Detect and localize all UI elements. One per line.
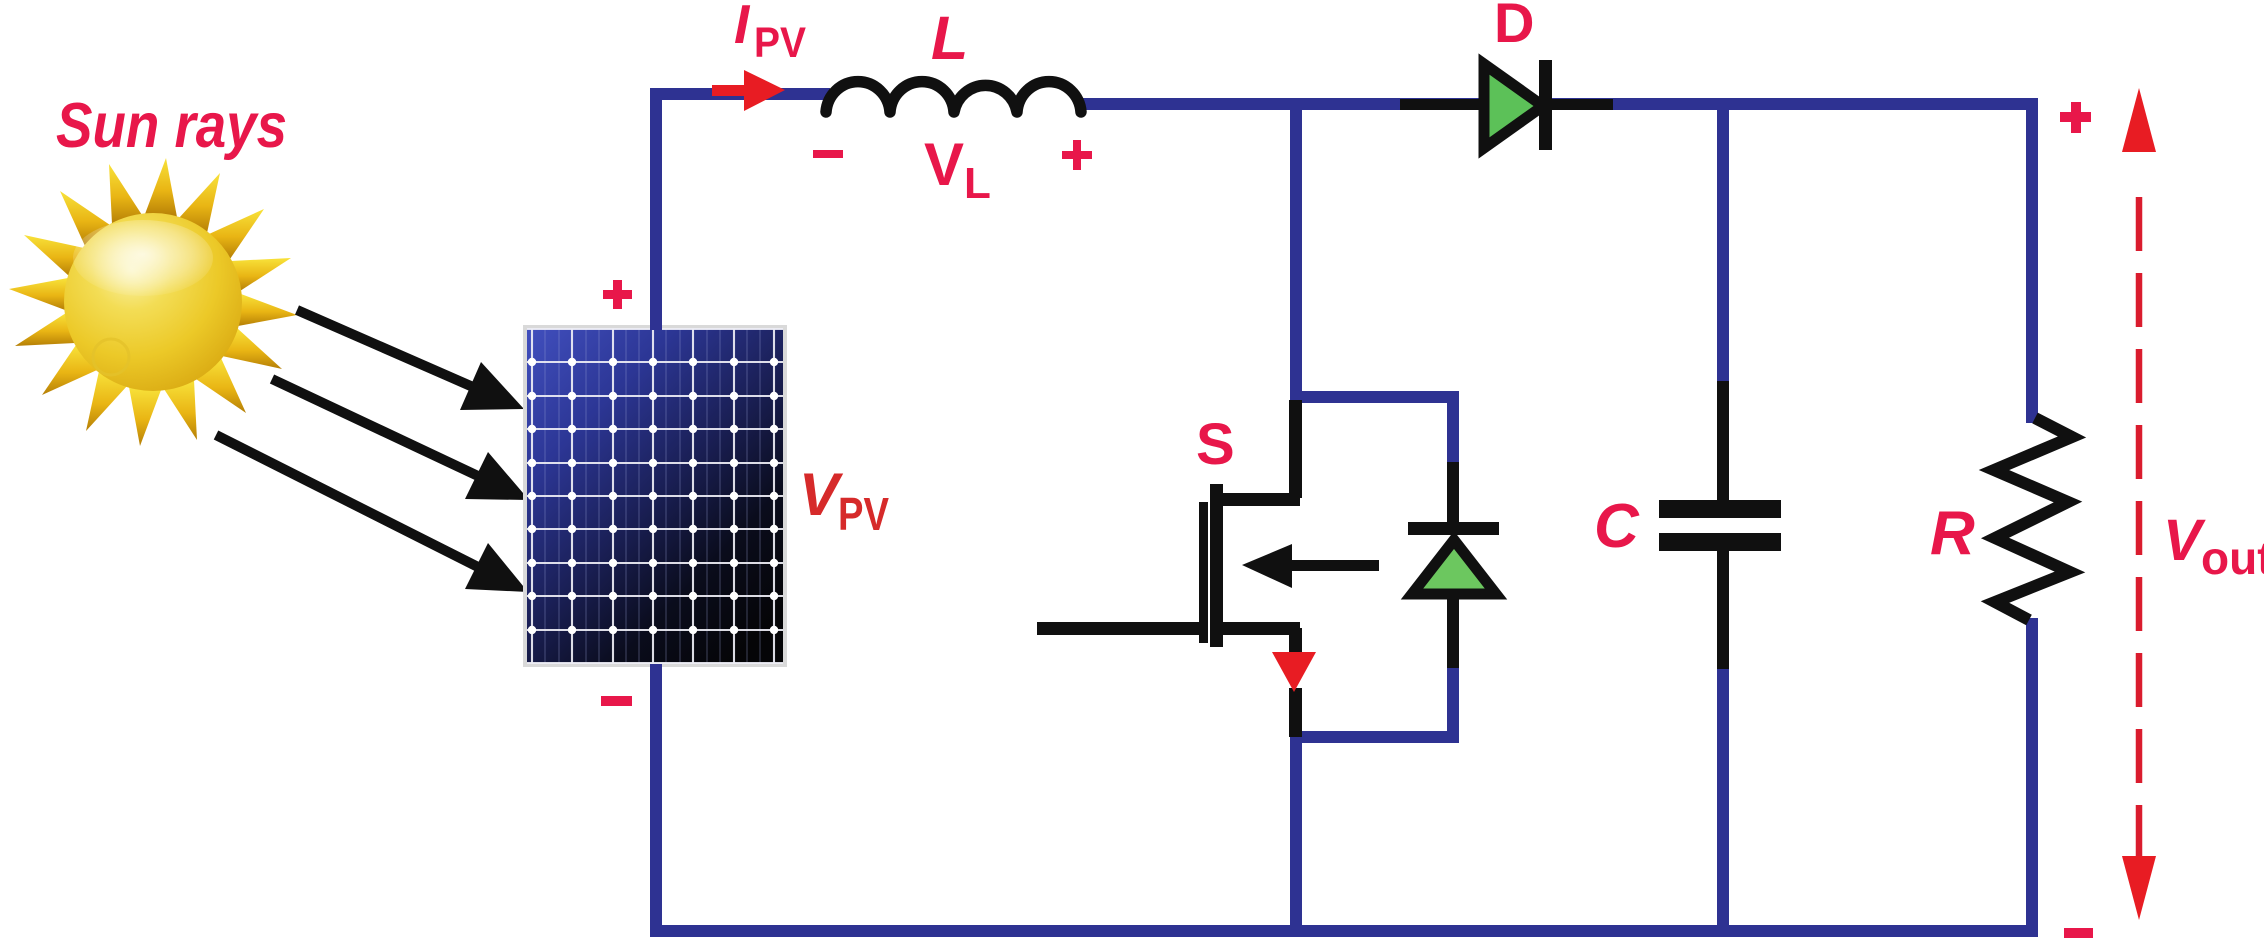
sun ray arrow 1 (297, 310, 473, 387)
sun ray arrow 3 (216, 435, 478, 567)
sun ray arrow 2 (272, 379, 478, 476)
current arrow IPV (712, 70, 785, 111)
svg-text:S: S (1196, 412, 1235, 477)
svg-text:R: R (1930, 499, 1975, 568)
svg-text:C: C (1594, 492, 1640, 561)
wire right vertical (top corner to resistor) (2026, 104, 2038, 423)
PV panel (523, 325, 787, 667)
sun (9, 158, 297, 446)
svg-text:L: L (964, 159, 991, 208)
wire S-branch vertical (source node to bottom rail) (1290, 737, 1302, 937)
wire left vertical top (panel + to corner) (650, 94, 662, 330)
wire left vertical bottom (panel - to bottom rail) (650, 664, 662, 931)
current direction triangle on source (1272, 652, 1316, 692)
plus sign VPV (603, 280, 632, 309)
svg-text:out: out (2201, 532, 2264, 584)
node drain junction / wire to body diode top (1290, 391, 1459, 403)
minus sign VL (813, 150, 843, 158)
wire top-left horizontal (650, 88, 830, 100)
minus sign VPV (601, 696, 632, 706)
svg-text:D: D (1494, 0, 1534, 54)
wire top horizontal (inductor to right corner) (1075, 98, 2038, 110)
body diode of S (1408, 462, 1499, 668)
wire body diode bottom vertical (1447, 666, 1459, 737)
Vout dashed arrow (2122, 88, 2156, 920)
svg-text:V: V (2163, 508, 2206, 573)
inductor L (826, 82, 1081, 112)
wire capacitor bottom vertical (1717, 666, 1729, 931)
plus sign VL (1062, 140, 1092, 170)
svg-text:I: I (734, 0, 751, 55)
diode D (1400, 60, 1613, 150)
wire body diode top vertical (1447, 391, 1459, 466)
wire bottom rail (650, 925, 2038, 937)
transistor S (MOSFET) (1037, 400, 1379, 737)
capacitor C (1659, 381, 1781, 669)
wire body diode bottom horizontal (1290, 731, 1459, 743)
svg-text:Sun rays: Sun rays (56, 91, 287, 161)
wire S-branch vertical (top rail to drain node) (1290, 104, 1302, 397)
svg-text:L: L (931, 4, 968, 72)
plus sign Vout (2060, 102, 2091, 133)
svg-text:PV: PV (838, 488, 889, 540)
resistor R (1994, 418, 2072, 620)
svg-text:PV: PV (754, 19, 806, 67)
minus sign Vout (2064, 928, 2093, 938)
svg-text:V: V (924, 131, 964, 198)
wire right vertical (resistor to bottom rail) (2026, 618, 2038, 937)
wire capacitor top vertical (1717, 104, 1729, 385)
